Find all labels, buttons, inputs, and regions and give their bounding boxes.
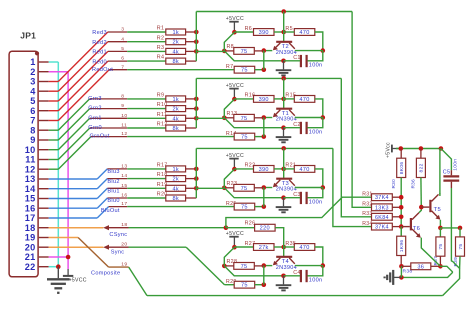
JP1 pin 17 stub	[39, 217, 49, 219]
junction collector node stage 1	[321, 48, 326, 53]
wire cap left plate to ground node	[284, 275, 301, 277]
junction ground node stage 2	[281, 125, 286, 130]
svg-text:11: 11	[25, 155, 35, 165]
svg-text:470: 470	[299, 97, 309, 103]
junction output node stage 2	[262, 134, 267, 139]
junction ground node right block	[399, 275, 404, 280]
svg-text:1k: 1k	[172, 97, 179, 103]
wire R3 to summing vertical	[186, 50, 197, 52]
wire R39 bottom lead	[459, 256, 461, 268]
JP1 pin 12 stub	[39, 168, 49, 170]
wire net Red2 tag segment	[108, 41, 127, 43]
junction R39 top	[458, 226, 463, 231]
wire 75 to emitter junction	[254, 265, 263, 267]
wire DAC node to 75 resistor stage 3	[196, 187, 224, 189]
wire cap left plate to ground node	[284, 197, 301, 199]
svg-text:75: 75	[241, 205, 248, 211]
junction ground node stage 4	[281, 274, 286, 279]
junction rail 2 / base vertical	[281, 76, 286, 81]
wire net CSync (orange) from pin18	[49, 227, 104, 229]
junction summing node stage 1	[222, 49, 227, 54]
CSync arrowhead	[103, 225, 109, 230]
wire net Red0 colored segment	[49, 110, 59, 112]
wire R1 to summing vertical	[186, 31, 197, 33]
svg-text:16: 16	[25, 203, 36, 213]
junction summing node stage 2	[222, 116, 227, 121]
wire net Blu1 green continuation	[127, 187, 166, 189]
svg-text:Red3: Red3	[92, 30, 107, 36]
transistor T2 2N3904	[276, 41, 292, 43]
wire 470 to collector node	[315, 169, 323, 188]
wire emitter node vertical	[263, 118, 265, 137]
wire DAC summing vertical stage 3	[195, 148, 197, 198]
junction DAC row 2 stage 2	[194, 106, 199, 111]
junction rail / T5 collector	[439, 146, 444, 151]
svg-text:5: 5	[30, 96, 35, 106]
svg-text:37K4: 37K4	[375, 195, 389, 201]
wire net Red3 tag segment	[108, 31, 127, 33]
junction base node stage 4	[281, 245, 286, 250]
resistor R30 8K06 (vertical)	[400, 149, 402, 159]
junction DAC row 2 stage 1	[194, 39, 199, 44]
svg-text:3: 3	[30, 77, 35, 87]
JP1 pin 15 stub	[39, 198, 49, 200]
junction ground node stage 1	[281, 59, 286, 64]
svg-text:4: 4	[121, 36, 124, 42]
svg-text:12: 12	[25, 164, 36, 174]
svg-text:12: 12	[121, 131, 127, 137]
svg-text:2k: 2k	[172, 40, 179, 46]
wire base node to 470	[284, 246, 295, 248]
svg-text:75: 75	[241, 68, 248, 74]
svg-text:+5Vcc: +5Vcc	[386, 142, 392, 158]
svg-text:390: 390	[259, 30, 269, 36]
svg-text:16: 16	[121, 193, 127, 199]
svg-text:36: 36	[417, 264, 424, 270]
wire net Red0 diagonal	[58, 61, 108, 111]
svg-text:T6: T6	[413, 226, 420, 232]
wire T5 emitter to output node	[439, 220, 441, 228]
wire R18 to summing vertical	[186, 178, 197, 180]
wire net CSync green to stage 4	[129, 227, 226, 229]
svg-text:R2: R2	[157, 35, 164, 41]
junction pin21/+5V	[49, 256, 68, 258]
net GND (cyan) pin1 segment	[49, 61, 59, 63]
wire base vertical	[283, 99, 285, 108]
JP1 pin 7 stub	[39, 120, 49, 122]
svg-text:21: 21	[25, 252, 36, 262]
svg-text:75: 75	[241, 116, 248, 122]
resistor R40 1K96 (vertical)	[400, 227, 402, 237]
wire +5V to 390 resistor	[234, 168, 253, 170]
wire net CSync dark segment	[109, 227, 129, 229]
svg-text:6: 6	[30, 106, 35, 116]
wire emitter node to R39	[440, 227, 460, 229]
capacitor C5 100n (vertical)	[441, 149, 452, 171]
wire collector node to cap right plate	[308, 266, 323, 276]
wire net GrnOut (green)	[49, 168, 59, 170]
wire 470 to collector node	[315, 247, 323, 266]
svg-text:7: 7	[30, 116, 35, 126]
net GND (cyan) pin22 segment	[49, 266, 59, 268]
junction emitter node stage 2	[262, 115, 267, 120]
wire net Sync dark segment	[109, 246, 129, 248]
junction DAC row 1 stage 3	[194, 167, 199, 172]
svg-text:R6: R6	[245, 26, 252, 32]
wire base node to 470	[284, 168, 295, 170]
wire net BluOut tag segment	[109, 206, 128, 208]
svg-text:19: 19	[25, 233, 36, 243]
wire net Blu0 tag segment	[107, 197, 127, 199]
wire 75 output to emitter vertical junction	[255, 69, 264, 71]
wire summing node to ground row (dogleg)	[224, 188, 283, 198]
wire +5V node to summing node (dogleg)	[224, 247, 234, 266]
ground symbol stub at JP1	[57, 267, 59, 279]
svg-text:100n: 100n	[452, 159, 458, 171]
JP1 pin 16 stub	[39, 207, 49, 209]
svg-text:2: 2	[30, 67, 35, 77]
wire CSync branch up to 37K4 row 1	[226, 197, 372, 228]
svg-text:75: 75	[241, 186, 248, 192]
junction rail / R30	[399, 146, 404, 151]
junction base node stage 2	[281, 97, 286, 102]
JP1 pin 6 stub	[39, 110, 49, 112]
svg-text:14: 14	[121, 173, 127, 179]
wire net Grn3 green continuation	[127, 98, 166, 100]
svg-text:75: 75	[241, 283, 248, 289]
wire net Grn1 green continuation	[127, 117, 166, 119]
svg-text:6: 6	[121, 56, 124, 62]
svg-text:RedOut: RedOut	[92, 67, 113, 73]
junction DAC row 3 stage 2	[194, 116, 199, 121]
wire 390 to base node	[274, 246, 284, 248]
wire net Grn3 colored segment	[49, 129, 59, 131]
JP1 pin 4 stub	[39, 90, 49, 92]
wire net Composite diagonal (brown)	[78, 238, 109, 268]
wire net Red1 diagonal	[58, 51, 108, 101]
svg-text:15: 15	[25, 194, 36, 204]
junction CSync / R26 node	[224, 225, 229, 230]
JP1 pin 21 stub	[39, 256, 49, 258]
wire summing node to 75	[224, 187, 234, 189]
wire net Blu1 tag segment	[107, 187, 127, 189]
svg-text:9: 9	[121, 103, 124, 109]
wire net Red2 green continuation	[127, 41, 166, 43]
junction output node stage 1	[262, 67, 267, 72]
junction +5V node stage 1	[232, 30, 237, 35]
wire net Red3 diagonal	[58, 32, 108, 82]
junction T5 emitter node	[438, 226, 443, 231]
wire R33 to summing node	[392, 216, 401, 218]
wire net Grn0 green continuation	[127, 127, 166, 129]
junction output node stage 4	[262, 282, 267, 287]
svg-text:8k: 8k	[172, 59, 179, 65]
svg-text:8: 8	[121, 94, 124, 100]
svg-text:18: 18	[121, 222, 127, 228]
wire net Composite green to output rail	[129, 267, 147, 296]
wire R19 to summing vertical	[186, 187, 197, 189]
junction T5 base node	[419, 205, 424, 210]
JP1 pin 3 stub	[39, 81, 49, 83]
wire net Blu0 green continuation	[127, 197, 166, 199]
junction rail 3 / base vertical	[281, 146, 286, 151]
wire R10 to summing vertical	[186, 108, 197, 110]
svg-text:Grn1: Grn1	[88, 115, 102, 121]
wire net Composite (orange) from pin19	[49, 237, 78, 239]
svg-text:CSync: CSync	[109, 232, 127, 238]
wire 75 to emitter junction	[254, 187, 263, 189]
wire net Grn0 tag segment	[90, 127, 127, 129]
wire net Red3 colored segment	[49, 81, 59, 83]
svg-text:R36: R36	[411, 179, 416, 189]
svg-text:100n: 100n	[309, 63, 323, 69]
svg-text:Red1: Red1	[92, 50, 107, 56]
junction base node stage 3	[281, 167, 286, 172]
transistor T5 2N3904	[429, 200, 431, 212]
JP1 pin-1 corner mark	[35, 51, 39, 55]
svg-text:2k: 2k	[172, 107, 179, 113]
svg-text:100n: 100n	[309, 278, 323, 284]
svg-text:1k: 1k	[172, 167, 179, 173]
svg-text:4k: 4k	[172, 49, 179, 55]
wire R32 to summing node	[392, 206, 401, 208]
svg-text:19: 19	[121, 261, 127, 267]
wire net Red2 colored segment	[49, 90, 59, 92]
wire R26 to stage 4 base node	[275, 228, 284, 247]
svg-text:20: 20	[121, 242, 127, 248]
JP1 pin 2 stub	[39, 71, 49, 73]
junction summing node R34	[399, 224, 404, 229]
wire +5V to 390 resistor	[234, 246, 253, 248]
ground symbol stage 1	[283, 61, 285, 70]
wire T6 emitter to output node	[421, 238, 440, 267]
junction rail 1 / base vertical	[281, 9, 286, 14]
wire R11 to summing vertical	[186, 117, 197, 119]
svg-text:13: 13	[25, 174, 36, 184]
wire summing node to 75	[224, 117, 234, 119]
wire emitter node vertical	[263, 188, 265, 207]
wire net Red0 tag segment	[108, 60, 127, 62]
svg-text:R9: R9	[157, 93, 164, 99]
wire net Blu3 tag segment	[107, 168, 127, 170]
wire net Grn0 diagonal	[58, 128, 90, 160]
wire +5V rail right block	[396, 148, 441, 150]
JP1 pin 22 stub	[39, 266, 49, 268]
JP1 pin 1 stub	[39, 61, 49, 63]
svg-text:470: 470	[299, 167, 309, 173]
svg-text:100n: 100n	[309, 200, 323, 206]
junction emitter node stage 3	[262, 185, 267, 190]
svg-text:27k: 27k	[259, 245, 269, 251]
wire net Blu3 green continuation	[127, 168, 166, 170]
wire stage 2 rail to 6K84 row	[196, 77, 341, 79]
wire net BluOut (blue)	[49, 217, 97, 219]
svg-text:R3: R3	[157, 45, 164, 51]
svg-text:9: 9	[30, 135, 35, 145]
wire net Blu0 diagonal	[97, 198, 107, 208]
wire +5V node to summing node (dogleg)	[224, 32, 234, 51]
JP1 pin 11 stub	[39, 159, 49, 161]
wire net Red1 tag segment	[108, 50, 127, 52]
wire emitter to junction	[264, 187, 273, 189]
wire summing vertical right block	[400, 178, 402, 237]
svg-text:75: 75	[241, 135, 248, 141]
junction ground node stage 3	[281, 195, 286, 200]
svg-text:20: 20	[25, 242, 36, 252]
wire summing node to 75	[224, 50, 234, 52]
wire 390 to base node	[274, 168, 284, 170]
wire T5 collector to +5V rail	[439, 193, 441, 196]
svg-text:470: 470	[299, 30, 309, 36]
svg-text:1K96: 1K96	[399, 240, 405, 253]
wire R20 to summing vertical	[186, 197, 197, 199]
junction DAC row 1 stage 2	[194, 97, 199, 102]
wire 470 to collector node	[315, 32, 323, 51]
wire net RedOut (red)	[49, 120, 59, 122]
wire summing node to 75	[224, 265, 234, 267]
junction rail / R36	[419, 146, 424, 151]
resistor R36 822 (vertical)	[420, 149, 422, 159]
svg-text:15: 15	[121, 183, 127, 189]
wire R2 to summing vertical	[186, 41, 197, 43]
junction summing node stage 3	[222, 186, 227, 191]
junction pin22/GND	[56, 264, 61, 269]
wire net Grn1 diagonal	[58, 118, 89, 149]
svg-text:1k: 1k	[172, 30, 179, 36]
wire R31 to summing node	[392, 196, 401, 198]
net +5V (magenta) pin2 segment	[49, 71, 68, 73]
wire summing node to ground row (dogleg)	[224, 118, 283, 128]
svg-text:390: 390	[259, 97, 269, 103]
svg-text:17: 17	[121, 201, 127, 207]
svg-text:T5: T5	[434, 207, 441, 213]
JP1 pin 18 stub	[39, 227, 49, 229]
svg-text:37K4: 37K4	[375, 225, 389, 231]
wire stage 3 rail to 37K4 row	[196, 147, 333, 149]
wire collector to junction	[295, 50, 323, 52]
wire net Blu1 colored segment	[49, 198, 97, 200]
wire 75 to emitter junction	[254, 50, 263, 52]
svg-text:100n: 100n	[309, 130, 323, 136]
svg-text:Blu0: Blu0	[107, 198, 119, 204]
wire collector node to cap right plate	[308, 188, 323, 198]
wire R37 bottom lead	[439, 256, 441, 266]
wire net BluOut green continuation	[127, 206, 234, 208]
svg-text:10: 10	[25, 145, 36, 155]
wire DAC node to 75 resistor stage 1	[196, 50, 224, 52]
wire R12 to summing vertical	[186, 127, 197, 129]
wire net Grn1 tag segment	[90, 117, 128, 119]
svg-text:4k: 4k	[172, 116, 179, 122]
wire R36 lead to T5 base node	[420, 178, 422, 208]
svg-text:3: 3	[121, 27, 124, 33]
wire rail 1 drop to row 2	[352, 12, 371, 208]
ground symbol stage 3	[283, 198, 285, 207]
JP1 pin 13 stub	[39, 178, 49, 180]
svg-text:+5VCC: +5VCC	[69, 277, 87, 283]
wire net Red1 green continuation	[127, 50, 166, 52]
junction +5V node stage 2	[232, 97, 237, 102]
wire net Blu2 colored segment	[49, 188, 97, 190]
svg-text:Grn2: Grn2	[88, 106, 102, 112]
wire net Sync (orange) from pin20	[49, 246, 104, 248]
wire net Sync green to R29	[129, 246, 187, 248]
JP1 pin 8 stub	[39, 129, 49, 131]
svg-text:R5: R5	[285, 26, 292, 32]
wire cap left plate to ground node	[284, 127, 301, 129]
svg-text:R8: R8	[227, 44, 234, 50]
JP1 pin 10 stub	[39, 149, 49, 151]
wire base node to 470	[284, 31, 295, 33]
JP1 pin 19 stub	[39, 237, 49, 239]
svg-text:14: 14	[25, 184, 36, 194]
wire net Red0 green continuation	[127, 60, 166, 62]
svg-text:Grn3: Grn3	[88, 96, 102, 102]
wire base vertical to rail stage 3	[283, 148, 285, 169]
svg-text:75: 75	[438, 244, 444, 250]
svg-text:Blu1: Blu1	[107, 189, 119, 195]
junction output node right block	[438, 264, 443, 269]
junction R40/R38 node	[399, 264, 404, 269]
wire net Grn3 diagonal	[58, 99, 89, 130]
svg-text:Grn0: Grn0	[88, 125, 102, 131]
svg-text:8: 8	[30, 125, 35, 135]
wire DAC node to 75 resistor stage 2	[196, 117, 224, 119]
wire rail 3 drop to row 4	[333, 148, 372, 226]
ground symbol right block (rotated, pointing left)	[394, 276, 402, 278]
wire emitter to junction	[264, 265, 273, 267]
transistor T1 2N3904	[276, 108, 292, 110]
wire T6 collector to T5 base node	[419, 207, 421, 213]
wire base vertical	[283, 32, 285, 41]
junction summing node stage 4	[222, 264, 227, 269]
wire +5V to 390 resistor	[234, 31, 253, 33]
wire output node elbow to ground node	[401, 266, 452, 277]
svg-text:822: 822	[419, 163, 425, 172]
svg-text:75: 75	[241, 49, 248, 55]
Sync arrowhead	[103, 245, 109, 250]
wire net Blu2 diagonal	[97, 179, 107, 189]
wire base vertical to rail stage 2	[283, 78, 285, 99]
wire 75 output to emitter vertical junction	[255, 136, 264, 138]
transistor T3 2N3904	[276, 178, 292, 180]
ground symbol stage 2	[283, 128, 285, 137]
junction base node stage 1	[281, 30, 286, 35]
svg-text:R1: R1	[157, 26, 164, 32]
wire net Grn2 diagonal	[58, 109, 89, 140]
wire emitter node vertical	[263, 266, 265, 285]
svg-text:10: 10	[121, 113, 127, 119]
wire 75 output to emitter vertical junction	[255, 284, 264, 286]
wire composite output rail	[147, 295, 443, 297]
wire 390 to base node	[274, 98, 284, 100]
wire collector to junction	[295, 265, 323, 267]
transistor T4 2N3904	[276, 256, 292, 258]
svg-text:Red2: Red2	[92, 40, 107, 46]
svg-text:5: 5	[121, 46, 124, 52]
junction +5V node stage 3	[232, 167, 237, 172]
wire summing node to ground row (dogleg)	[224, 266, 283, 276]
wire net Grn1 colored segment	[49, 149, 59, 151]
junction collector node stage 2	[321, 115, 326, 120]
wire net GrnOut tag segment	[91, 136, 127, 138]
wire net Blu3 colored segment	[49, 178, 97, 180]
wire summing node to ground row (dogleg)	[224, 51, 283, 61]
svg-text:6K84: 6K84	[375, 215, 389, 221]
junction collector node stage 4	[321, 263, 326, 268]
svg-text:2k: 2k	[172, 177, 179, 183]
wire DAC summing vertical stage 2	[195, 78, 197, 128]
